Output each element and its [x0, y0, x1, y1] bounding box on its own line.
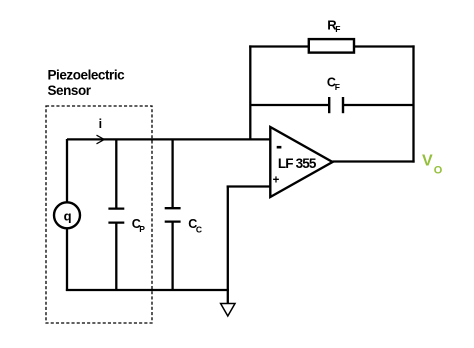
wire: source q bottom lead [66, 228, 68, 291]
capacitor CC plates [165, 208, 181, 221]
wire: feedback top-right segment [354, 45, 415, 47]
op-amp U1 [270, 127, 332, 197]
wire: CF branch right segment [343, 104, 414, 106]
svg-text:F: F [335, 82, 340, 92]
svg-text:O: O [434, 164, 443, 176]
wire: feedback left vertical [249, 45, 251, 140]
wire: bottom rail [66, 289, 229, 291]
label CC [188, 217, 202, 234]
label: inverting pin - [277, 146, 282, 149]
wire: source q top lead [66, 139, 68, 203]
svg-text:P: P [139, 224, 145, 234]
label RF [327, 18, 340, 35]
capacitor CP plates [108, 209, 124, 223]
svg-text:i: i [99, 117, 102, 131]
sensor enclosure (dashed box) [46, 106, 152, 323]
svg-text:LF 355: LF 355 [278, 156, 317, 171]
svg-text:+: + [273, 174, 280, 186]
wire: CC bottom lead [171, 222, 173, 290]
wire: ground branch vertical [227, 186, 229, 304]
label: Piezoelectric Sensor [48, 68, 126, 99]
svg-text:Piezoelectric: Piezoelectric [48, 68, 126, 83]
svg-text:F: F [335, 24, 340, 34]
wire: output [333, 160, 415, 162]
wire: non-inverting input [227, 185, 271, 187]
wire: CF branch left segment [250, 104, 329, 106]
ground [221, 304, 235, 317]
resistor RF [309, 39, 354, 53]
label VO (output voltage) [422, 153, 443, 177]
svg-text:Sensor: Sensor [48, 83, 92, 98]
label CF [327, 76, 340, 93]
label CP [132, 217, 146, 234]
capacitor CF plates [329, 97, 343, 113]
charge source q [54, 202, 80, 228]
current arrow head [97, 135, 105, 144]
svg-text:V: V [422, 153, 433, 170]
wire: feedback right vertical [412, 45, 414, 162]
svg-text:C: C [196, 224, 202, 234]
wire: feedback top-left segment [249, 45, 309, 47]
wire: top rail (q to inverting input) [67, 138, 271, 140]
wire: CC top lead [171, 139, 173, 208]
wire: CP bottom lead [115, 223, 117, 290]
wire: CP top lead [115, 139, 117, 209]
svg-text:q: q [64, 209, 72, 224]
